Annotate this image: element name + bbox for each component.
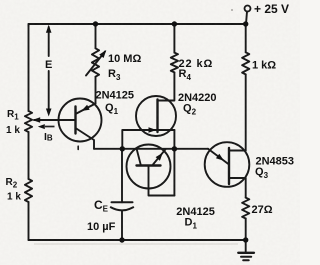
- wire R3 to Q1 emitter: [95, 77, 97, 104]
- wire R3 branch top: [95, 24, 97, 48]
- arrowhead E bottom: [46, 109, 52, 117]
- arrowhead Q1 emitter: [81, 105, 89, 111]
- wire R4 branch top: [173, 24, 175, 53]
- wire left side lower: [28, 202, 30, 240]
- terminal +25V: [245, 6, 251, 12]
- wire +25V drop: [246, 12, 247, 25]
- resistor 1k: [242, 52, 249, 74]
- resistor R1: [25, 111, 32, 132]
- scan ghost under bottom rail: [34, 243, 238, 245]
- capacitor CE: [121, 149, 123, 203]
- wire 27ohm to ground: [245, 219, 247, 241]
- wire Q2 source / D1 base right side: [173, 130, 175, 196]
- wire bottom rail: [29, 239, 247, 241]
- wire Q3 B1 to 27ohm: [245, 178, 247, 198]
- arrowhead D1 emitter: [156, 153, 163, 161]
- transistor Q1: [59, 99, 102, 142]
- transistor D1: [127, 145, 171, 189]
- wire D1 base loop: [149, 166, 175, 196]
- annotation arrow E: [48, 27, 50, 56]
- arrowhead Q3 emitter: [216, 154, 224, 161]
- wire R4 to Q2 drain: [158, 72, 175, 100]
- speck near terminal: [231, 9, 233, 11]
- transistor Q2: [136, 96, 176, 136]
- wire 1k branch top: [245, 24, 247, 52]
- arrowhead R3: [99, 50, 106, 58]
- arrowhead R1 wiper: [32, 117, 40, 123]
- wire 1k to Q3 B2: [245, 74, 247, 150]
- wire top rail: [29, 24, 247, 26]
- resistor R2: [25, 179, 32, 202]
- resistor R3 variable: [92, 48, 99, 76]
- wire Q2 gate riser: [121, 130, 123, 149]
- wire left side middle: [28, 132, 30, 179]
- transistor Q3: [205, 142, 250, 187]
- wire Q1 collector stub tick: [77, 146, 79, 149]
- arrowhead IB: [38, 124, 45, 129]
- arrowhead Q2 gate: [149, 127, 157, 133]
- wire left side upper: [28, 24, 30, 111]
- resistor 27ohm: [242, 198, 249, 219]
- node junction dots: [93, 21, 98, 26]
- wire collector rail (main mid wire): [94, 148, 208, 150]
- resistor R4: [171, 53, 178, 73]
- wire IB annotation: [45, 126, 55, 128]
- arrowhead E top: [46, 25, 52, 33]
- ground: [245, 240, 247, 252]
- wire R1 wiper to Q1 base: [34, 119, 76, 121]
